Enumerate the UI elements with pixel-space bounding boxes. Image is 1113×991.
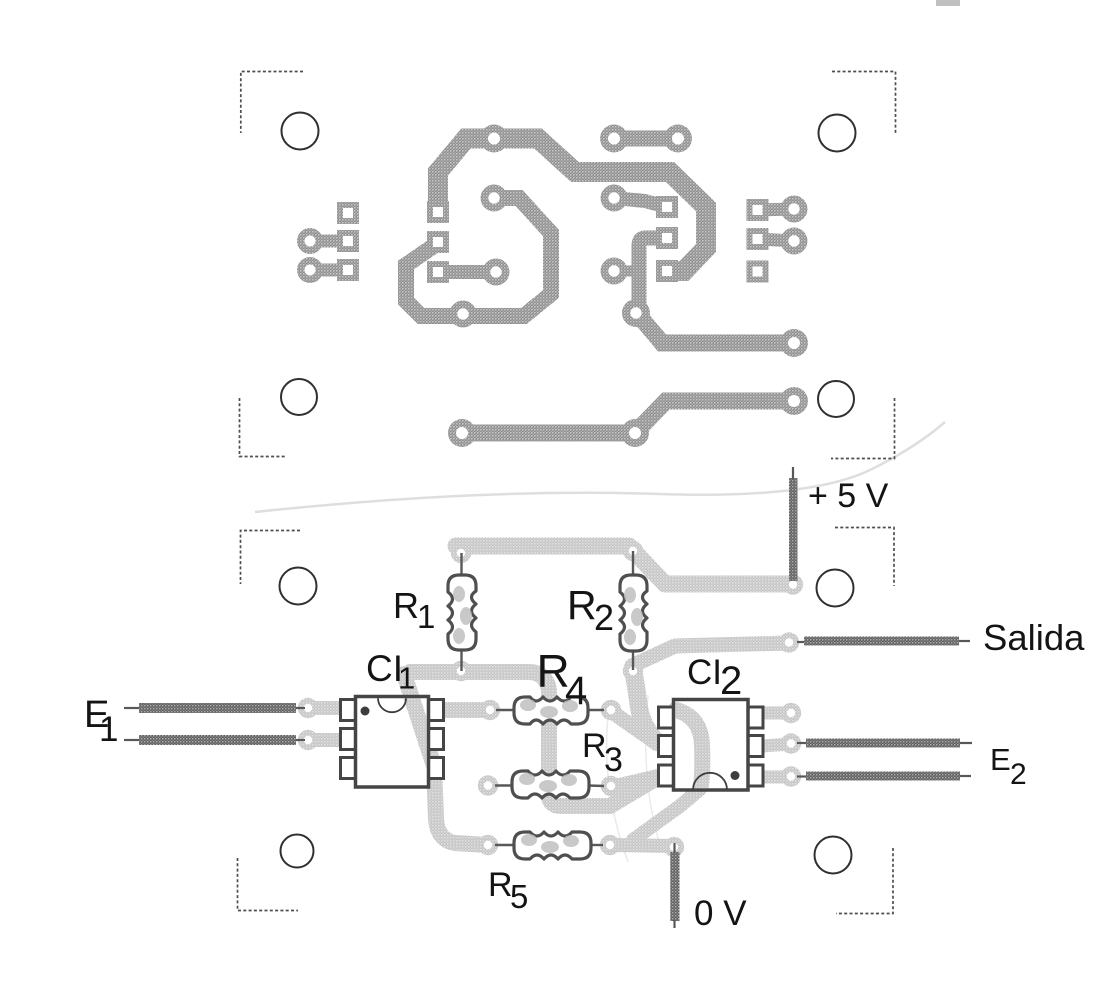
svg-text:R: R: [393, 585, 419, 626]
svg-text:1: 1: [417, 598, 435, 635]
svg-text:R: R: [567, 582, 597, 628]
svg-text:E: E: [990, 742, 1011, 777]
svg-text:2: 2: [1010, 758, 1027, 791]
svg-text:CI: CI: [687, 653, 722, 692]
svg-text:3: 3: [604, 741, 623, 779]
svg-text:Salida: Salida: [983, 617, 1085, 658]
svg-text:5: 5: [510, 878, 528, 915]
svg-text:+ 5 V: + 5 V: [808, 477, 889, 515]
svg-text:2: 2: [594, 597, 614, 638]
svg-text:1: 1: [398, 661, 415, 696]
svg-text:1: 1: [99, 710, 118, 749]
svg-text:R: R: [582, 727, 607, 765]
svg-text:R: R: [488, 866, 513, 904]
svg-text:0 V: 0 V: [694, 894, 747, 933]
svg-text:2: 2: [720, 659, 742, 703]
svg-text:4: 4: [565, 669, 587, 713]
